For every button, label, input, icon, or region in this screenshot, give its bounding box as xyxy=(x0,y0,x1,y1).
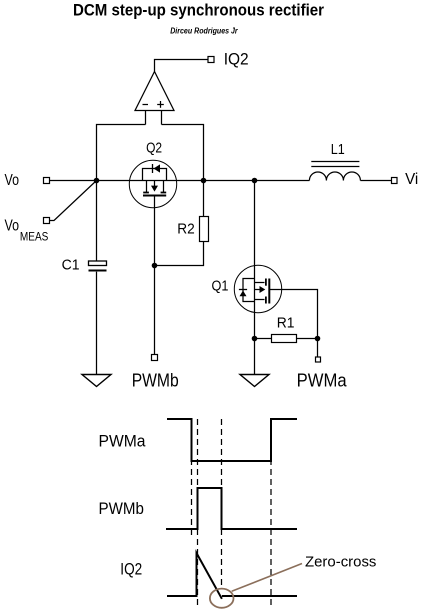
wire top loop right xyxy=(162,125,204,181)
terminal Vo xyxy=(44,178,50,184)
wire R1 right xyxy=(297,338,318,340)
wire after inductor xyxy=(360,180,391,182)
svg-text:Vo: Vo xyxy=(5,218,20,235)
capacitor C1 xyxy=(89,261,107,271)
ground left xyxy=(82,375,111,387)
ground right xyxy=(240,375,269,387)
wire op-amp plus input lead xyxy=(161,111,163,125)
wire main horizontal rail xyxy=(50,180,310,182)
waveform PWMa xyxy=(167,419,297,461)
waveform IQ2 xyxy=(167,553,222,599)
wire C1 top xyxy=(96,181,98,261)
wire R2 top xyxy=(203,181,205,217)
wire PWMa stub xyxy=(317,339,319,358)
wire top loop left xyxy=(97,125,146,181)
wire R1 left xyxy=(255,338,272,340)
svg-text:DCM step-up synchronous rectif: DCM step-up synchronous rectifier xyxy=(73,0,324,19)
svg-text:IQ2: IQ2 xyxy=(120,560,142,579)
dashed timeline t4 xyxy=(270,419,272,605)
dashed timeline t2 xyxy=(197,419,199,606)
zero-cross annotation leader line xyxy=(232,564,302,592)
svg-text:PWMb: PWMb xyxy=(99,499,144,518)
wire R2 bottom to gate xyxy=(155,242,204,266)
inductor L1 xyxy=(309,162,360,181)
resistor R2 xyxy=(200,217,209,242)
svg-text:PWMa: PWMa xyxy=(99,431,147,450)
terminal Vo MEAS xyxy=(44,218,50,224)
svg-text:Q2: Q2 xyxy=(146,140,162,157)
terminal PWMa xyxy=(316,357,321,362)
wire op-amp minus input lead xyxy=(145,111,147,125)
svg-text:Vi: Vi xyxy=(405,171,418,188)
dashed timeline t1 xyxy=(191,419,193,537)
wire C1 bottom xyxy=(96,272,98,375)
wire comparator output xyxy=(155,60,209,72)
svg-text:MEAS: MEAS xyxy=(20,229,49,243)
node junction gate-R2 xyxy=(152,263,158,269)
svg-text:PWMa: PWMa xyxy=(297,371,348,391)
transistor Q1 xyxy=(234,265,281,312)
wire Q1 gate right xyxy=(269,290,317,339)
zero-cross annotation circle xyxy=(210,589,234,608)
svg-text:Q1: Q1 xyxy=(212,278,229,295)
dashed timeline t3 xyxy=(221,419,223,585)
node junction R1 right xyxy=(315,336,321,342)
terminal PWMb xyxy=(152,355,158,361)
transistor Q2 xyxy=(129,160,176,207)
svg-text:IQ2: IQ2 xyxy=(224,50,249,69)
node junction main-Q1 xyxy=(252,178,258,184)
node junction main-left xyxy=(94,178,100,184)
wire Vo MEAS diagonal xyxy=(50,181,97,221)
wire Q2 gate down xyxy=(154,196,156,355)
node junction R1 left xyxy=(252,336,258,342)
svg-text:Zero-cross: Zero-cross xyxy=(305,553,376,570)
svg-text:Vo: Vo xyxy=(5,172,20,189)
svg-text:C1: C1 xyxy=(62,257,80,274)
terminal IQ2 xyxy=(208,57,214,63)
svg-text:Dirceu Rodrigues Jr: Dirceu Rodrigues Jr xyxy=(170,27,238,36)
waveform PWMb xyxy=(166,488,297,529)
resistor R1 xyxy=(272,335,297,343)
node junction main-R2 xyxy=(201,178,207,184)
svg-text:L1: L1 xyxy=(331,141,345,158)
svg-text:R2: R2 xyxy=(177,220,195,237)
svg-text:R1: R1 xyxy=(277,315,295,332)
terminal Vi xyxy=(392,178,398,184)
op-amp U1 comparator xyxy=(135,72,174,111)
wire Q1 branch vertical xyxy=(254,181,256,375)
svg-text:PWMb: PWMb xyxy=(132,371,179,391)
